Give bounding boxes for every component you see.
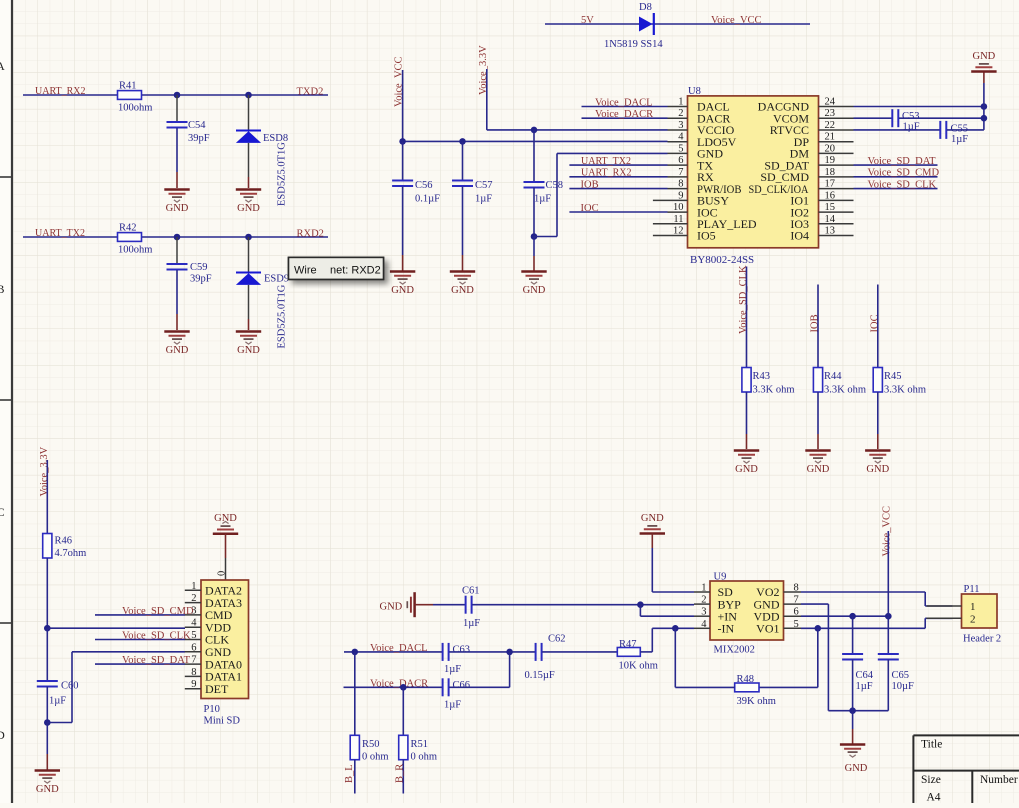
net label IOC pin10 bbox=[581, 203, 599, 214]
wire bbox=[877, 434, 879, 449]
svg-text:Voice_SD_DAT: Voice_SD_DAT bbox=[868, 156, 937, 167]
svg-text:Wire: Wire bbox=[294, 265, 317, 277]
wire bbox=[486, 69, 488, 130]
svg-text:15: 15 bbox=[825, 202, 836, 213]
svg-text:17: 17 bbox=[825, 179, 836, 190]
svg-text:1µF: 1µF bbox=[534, 194, 551, 205]
resistor R42 bbox=[118, 233, 142, 242]
net label Voice_SD_DAT bbox=[868, 156, 937, 167]
junction bbox=[885, 613, 892, 620]
svg-text:C58: C58 bbox=[546, 180, 564, 191]
svg-text:D: D bbox=[0, 728, 5, 742]
value 1uF C55 bbox=[951, 134, 968, 145]
U9 pin 6 bbox=[754, 607, 802, 624]
junction bbox=[44, 719, 51, 726]
value 0.15uF bbox=[525, 670, 555, 681]
wire bbox=[176, 270, 178, 314]
svg-text:4.7ohm: 4.7ohm bbox=[55, 548, 87, 559]
svg-text:GND: GND bbox=[641, 513, 664, 524]
zone letter A bbox=[0, 59, 5, 73]
wire bbox=[877, 285, 879, 368]
svg-text:1N5819 SS14: 1N5819 SS14 bbox=[604, 39, 663, 50]
value 10uF bbox=[892, 681, 915, 692]
svg-text:GND: GND bbox=[866, 464, 889, 475]
wire bbox=[176, 314, 178, 330]
svg-text:11: 11 bbox=[673, 214, 683, 225]
svg-text:R48: R48 bbox=[737, 674, 755, 685]
svg-text:A: A bbox=[0, 59, 5, 73]
wire bbox=[542, 651, 617, 653]
svg-text:10K ohm: 10K ohm bbox=[619, 661, 658, 672]
U8 pin 16 bbox=[790, 190, 853, 207]
P10 pin 7 bbox=[185, 655, 242, 672]
U9 pin 1 bbox=[694, 583, 733, 600]
value 39pF bbox=[188, 133, 210, 144]
svg-text:C62: C62 bbox=[548, 634, 566, 645]
svg-text:GND: GND bbox=[380, 602, 403, 613]
designator C60 bbox=[61, 681, 79, 692]
wire bbox=[746, 434, 748, 449]
designator C63 bbox=[453, 645, 471, 656]
capacitor C62 bbox=[536, 643, 542, 661]
U8 pin 14 bbox=[790, 214, 853, 231]
value 1uF C57 bbox=[475, 194, 492, 205]
svg-text:8: 8 bbox=[794, 583, 799, 594]
IC U8 BY8002-24SS bbox=[688, 86, 819, 266]
designator ESD9 bbox=[264, 274, 289, 285]
svg-text:12: 12 bbox=[673, 226, 684, 237]
net label IOB pin8 bbox=[581, 180, 599, 191]
net label UART_RX2 pin7 bbox=[581, 168, 632, 179]
resistor R47 bbox=[617, 648, 640, 657]
svg-text:Voice_SD_CMD: Voice_SD_CMD bbox=[122, 606, 194, 617]
value 0 ohm R50 bbox=[362, 752, 389, 763]
value 3.3K ohm R44 bbox=[824, 385, 866, 396]
junction bbox=[849, 707, 856, 714]
svg-text:IOB: IOB bbox=[581, 180, 599, 191]
capacitor C53 bbox=[892, 109, 898, 127]
wire bbox=[46, 628, 48, 681]
value 10K ohm bbox=[619, 661, 658, 672]
value 0 ohm R51 bbox=[411, 752, 438, 763]
U8 pin 11 bbox=[653, 214, 757, 231]
wire bbox=[569, 188, 667, 190]
svg-text:6: 6 bbox=[794, 607, 799, 618]
wire bbox=[569, 211, 667, 213]
wire bbox=[248, 319, 250, 330]
op-amp U9 MIX2002 bbox=[710, 572, 784, 656]
svg-text:GND: GND bbox=[523, 285, 546, 296]
svg-text:21: 21 bbox=[825, 132, 836, 143]
svg-text:GND: GND bbox=[166, 203, 189, 214]
svg-text:B: B bbox=[0, 282, 5, 296]
wire bbox=[95, 663, 185, 665]
svg-text:R41: R41 bbox=[119, 81, 137, 92]
wire bbox=[545, 23, 810, 25]
junction bbox=[981, 103, 988, 110]
power net Voice_3.3V vertical bbox=[478, 45, 489, 95]
wire bbox=[47, 722, 72, 724]
capacitor C61 bbox=[466, 596, 472, 614]
svg-text:13: 13 bbox=[825, 226, 836, 237]
svg-text:2: 2 bbox=[970, 613, 976, 625]
wire bbox=[674, 628, 676, 687]
junction node TXD2 b bbox=[245, 92, 252, 99]
U9 pin 8 bbox=[756, 583, 801, 600]
wire bbox=[652, 591, 694, 593]
wire bbox=[533, 130, 535, 182]
capacitor C66 bbox=[443, 678, 449, 696]
wire bbox=[402, 70, 404, 141]
net label RXD2 bbox=[297, 229, 324, 240]
tooltip Wire net: RXD2 bbox=[289, 257, 384, 279]
svg-text:7: 7 bbox=[794, 595, 799, 606]
svg-text:GND: GND bbox=[845, 763, 868, 774]
designator R41 bbox=[119, 81, 137, 92]
svg-text:R47: R47 bbox=[619, 639, 637, 650]
svg-text:ESD5Z5.0T1G: ESD5Z5.0T1G bbox=[277, 284, 288, 348]
wire bbox=[887, 531, 889, 616]
svg-text:GND: GND bbox=[166, 345, 189, 356]
wire bbox=[344, 686, 443, 688]
wire bbox=[402, 141, 404, 180]
ground bbox=[805, 451, 830, 476]
value 1N5819 SS14 bbox=[604, 39, 663, 50]
power net Voice_VCC vertical bbox=[394, 56, 405, 107]
wire bbox=[248, 285, 250, 319]
U8 pin 12 bbox=[653, 226, 716, 243]
designator R47 bbox=[619, 639, 637, 650]
net label IOC vertical bbox=[869, 314, 880, 332]
value ESD5Z5.0T1G bbox=[277, 142, 288, 206]
ground bbox=[640, 513, 665, 534]
value 1uF C58 bbox=[534, 194, 551, 205]
capacitor C63 bbox=[443, 643, 449, 661]
resistor R48 bbox=[735, 683, 759, 692]
wire bbox=[248, 95, 250, 131]
capacitor C58 bbox=[524, 182, 545, 188]
svg-text:1µF: 1µF bbox=[444, 664, 461, 675]
connector P10 Mini SD bbox=[201, 580, 249, 727]
svg-text:B_L: B_L bbox=[344, 764, 355, 783]
svg-text:C60: C60 bbox=[61, 681, 79, 692]
wire bbox=[801, 627, 925, 629]
U8 pin 10 bbox=[668, 202, 718, 219]
wire bbox=[640, 651, 652, 653]
zone letter D bbox=[0, 728, 5, 742]
svg-text:Mini SD: Mini SD bbox=[204, 716, 241, 727]
designator C58 bbox=[546, 180, 564, 191]
svg-text:GND: GND bbox=[237, 203, 260, 214]
svg-text:Voice_DACR: Voice_DACR bbox=[595, 109, 653, 120]
svg-text:C64: C64 bbox=[856, 670, 874, 681]
designator R48 bbox=[737, 674, 755, 685]
ground power port at C61 bbox=[380, 592, 434, 617]
U8 pin 19 bbox=[764, 155, 853, 172]
svg-text:RXD2: RXD2 bbox=[297, 229, 324, 240]
wire bbox=[472, 604, 694, 606]
wire bbox=[854, 176, 938, 178]
designator C53 bbox=[902, 111, 920, 122]
U8 pin 18 bbox=[760, 167, 853, 184]
svg-text:R45: R45 bbox=[884, 371, 902, 382]
svg-text:4: 4 bbox=[678, 132, 684, 143]
power net Voice_3.3V lower bbox=[39, 446, 50, 496]
svg-text:Voice_3.3V: Voice_3.3V bbox=[39, 446, 50, 496]
net label Voice_SD_DAT p10 bbox=[122, 655, 191, 666]
net label 5V bbox=[581, 15, 594, 26]
designator R51 bbox=[411, 739, 429, 750]
wire bbox=[924, 618, 926, 628]
svg-text:10µF: 10µF bbox=[892, 681, 915, 692]
svg-text:1µF: 1µF bbox=[903, 122, 920, 133]
ground bbox=[236, 332, 261, 357]
wire bbox=[533, 188, 535, 237]
P10 pin 6 bbox=[185, 642, 232, 659]
wire bbox=[95, 639, 185, 641]
wire bbox=[509, 652, 511, 687]
wire bbox=[23, 94, 118, 96]
svg-text:19: 19 bbox=[825, 155, 836, 166]
designator R44 bbox=[824, 371, 842, 382]
svg-text:1µF: 1µF bbox=[856, 681, 873, 692]
wire bbox=[449, 686, 509, 688]
svg-text:20: 20 bbox=[825, 143, 836, 154]
U8 pin 4 bbox=[668, 132, 737, 149]
net label B_L bbox=[344, 764, 355, 783]
wire bbox=[924, 592, 926, 606]
svg-text:GND: GND bbox=[237, 345, 260, 356]
svg-text:Voice_DACL: Voice_DACL bbox=[370, 643, 428, 654]
value 100ohm bbox=[118, 103, 152, 114]
wire bbox=[433, 604, 466, 606]
net label Voice_DACR audio bbox=[370, 678, 428, 689]
power net Voice_VCC lower bbox=[881, 506, 892, 557]
svg-text:2: 2 bbox=[701, 595, 706, 606]
designator C56 bbox=[415, 180, 433, 191]
wire bbox=[746, 392, 748, 434]
wire bbox=[557, 152, 668, 154]
svg-text:8: 8 bbox=[191, 667, 196, 678]
wire bbox=[462, 141, 464, 180]
wire bbox=[887, 660, 889, 711]
ground bbox=[971, 51, 996, 72]
net label Voice_SD_CLK vertical bbox=[738, 265, 749, 334]
svg-text:1µF: 1µF bbox=[49, 696, 66, 707]
wire bbox=[675, 686, 734, 688]
svg-text:4: 4 bbox=[191, 618, 197, 629]
wire bbox=[854, 129, 941, 131]
net label Voice_VCC bbox=[711, 15, 762, 26]
svg-text:UART_TX2: UART_TX2 bbox=[581, 156, 631, 167]
ground bbox=[390, 272, 415, 297]
svg-text:39pF: 39pF bbox=[188, 133, 210, 144]
svg-text:U9: U9 bbox=[714, 572, 727, 583]
wire bbox=[487, 129, 668, 131]
wire bbox=[46, 558, 48, 628]
svg-text:3: 3 bbox=[191, 605, 196, 616]
ground bbox=[865, 451, 890, 476]
svg-text:5V: 5V bbox=[581, 15, 594, 26]
wire bbox=[46, 460, 48, 534]
P10 pin 2 bbox=[185, 593, 242, 610]
svg-text:16: 16 bbox=[825, 190, 836, 201]
svg-text:Header 2: Header 2 bbox=[963, 634, 1001, 645]
svg-text:C57: C57 bbox=[475, 180, 493, 191]
value 1uF C61 bbox=[463, 618, 480, 629]
wire bbox=[569, 176, 667, 178]
svg-text:IOC: IOC bbox=[869, 314, 880, 332]
designator C62 bbox=[548, 634, 566, 645]
svg-text:A4: A4 bbox=[927, 792, 941, 804]
svg-text:GND: GND bbox=[735, 464, 758, 475]
wire bbox=[582, 117, 668, 119]
svg-text:2: 2 bbox=[678, 108, 683, 119]
value 1uF C64 bbox=[856, 681, 873, 692]
svg-text:4: 4 bbox=[701, 619, 707, 630]
wire bbox=[534, 236, 557, 238]
wire bbox=[533, 237, 535, 257]
designator D8 bbox=[639, 2, 652, 13]
svg-text:0.1µF: 0.1µF bbox=[415, 194, 440, 205]
title block bbox=[913, 735, 1019, 803]
designator C65 bbox=[892, 670, 910, 681]
svg-text:6: 6 bbox=[678, 155, 683, 166]
capacitor C65 bbox=[878, 654, 899, 660]
junction bbox=[815, 625, 822, 632]
svg-text:ESD9: ESD9 bbox=[264, 274, 289, 285]
junction bbox=[531, 127, 538, 134]
U8 pin 15 bbox=[790, 202, 853, 219]
wire bbox=[852, 660, 854, 711]
net label Voice_SD_CLK p10 bbox=[122, 631, 191, 642]
U8 pin 7 bbox=[668, 167, 715, 184]
P10 pin 5 bbox=[185, 630, 230, 647]
wire bbox=[225, 534, 227, 558]
designator R42 bbox=[119, 223, 137, 234]
svg-text:1: 1 bbox=[701, 583, 706, 594]
svg-text:R42: R42 bbox=[119, 223, 137, 234]
designator C66 bbox=[453, 680, 471, 691]
svg-text:IO4: IO4 bbox=[790, 229, 809, 243]
svg-text:Voice_SD_CLK: Voice_SD_CLK bbox=[122, 631, 191, 642]
U8 pin 2 bbox=[668, 108, 731, 125]
svg-text:GND: GND bbox=[214, 513, 237, 524]
U8 pin 3 bbox=[668, 120, 735, 137]
designator ESD8 bbox=[263, 133, 288, 144]
zone letter C bbox=[0, 505, 5, 519]
svg-text:GND: GND bbox=[451, 285, 474, 296]
net label UART_TX2 bbox=[35, 228, 85, 239]
wire bbox=[640, 615, 694, 617]
capacitor C60 bbox=[37, 681, 58, 687]
junction node TXD2 bbox=[174, 92, 181, 99]
P10 pin 8 bbox=[185, 667, 242, 684]
junction bbox=[506, 649, 513, 656]
resistor R43 bbox=[742, 368, 751, 393]
svg-text:C66: C66 bbox=[453, 680, 471, 691]
wire bbox=[639, 605, 641, 617]
wire bbox=[402, 255, 404, 271]
svg-text:GND: GND bbox=[807, 464, 830, 475]
wire bbox=[569, 164, 667, 166]
ground bbox=[213, 513, 238, 534]
designator R50 bbox=[362, 739, 380, 750]
wire bbox=[556, 153, 558, 236]
ground bbox=[840, 745, 868, 775]
svg-text:5: 5 bbox=[678, 143, 683, 154]
junction bbox=[849, 613, 856, 620]
svg-text:7: 7 bbox=[191, 655, 196, 666]
svg-text:Voice_VCC: Voice_VCC bbox=[711, 15, 762, 26]
designator C59 bbox=[190, 262, 208, 273]
ground bbox=[521, 272, 546, 297]
designator R45 bbox=[884, 371, 902, 382]
wire bbox=[582, 106, 668, 108]
wire bbox=[449, 651, 535, 653]
wire bbox=[651, 628, 653, 652]
P10 pin 1 bbox=[185, 581, 242, 598]
wire bbox=[651, 548, 653, 592]
svg-text:7: 7 bbox=[678, 167, 683, 178]
designator R43 bbox=[753, 371, 771, 382]
svg-text:14: 14 bbox=[825, 214, 836, 225]
svg-text:Voice_DACL: Voice_DACL bbox=[595, 98, 653, 109]
svg-text:R51: R51 bbox=[411, 739, 429, 750]
svg-text:2: 2 bbox=[191, 593, 196, 604]
svg-text:3: 3 bbox=[701, 607, 706, 618]
U8 pin 17 bbox=[749, 179, 854, 196]
resistor R46 bbox=[43, 534, 52, 559]
svg-text:IOC: IOC bbox=[581, 203, 599, 214]
junction node RXD2 b bbox=[245, 234, 252, 241]
svg-text:ESD5Z5.0T1G: ESD5Z5.0T1G bbox=[277, 142, 288, 206]
svg-text:6: 6 bbox=[191, 642, 196, 653]
wire bbox=[46, 723, 48, 755]
svg-text:R46: R46 bbox=[55, 536, 73, 547]
svg-text:24: 24 bbox=[825, 97, 836, 108]
svg-text:VO1: VO1 bbox=[756, 622, 779, 636]
wire bbox=[47, 627, 185, 629]
wire bbox=[925, 617, 952, 619]
designator C61 bbox=[462, 586, 480, 597]
svg-text:B_R: B_R bbox=[395, 764, 406, 783]
svg-text:39pF: 39pF bbox=[190, 274, 212, 285]
designator C54 bbox=[188, 120, 206, 131]
svg-text:C54: C54 bbox=[188, 120, 206, 131]
wire bbox=[887, 616, 889, 654]
value 100ohm R42 bbox=[118, 245, 152, 256]
value ESD5Z5.0T1G b bbox=[277, 284, 288, 348]
svg-text:C59: C59 bbox=[190, 262, 208, 273]
U8 pin 8 bbox=[668, 179, 742, 196]
svg-text:C53: C53 bbox=[902, 111, 920, 122]
designator R46 bbox=[55, 536, 73, 547]
P10 pin 3 bbox=[185, 605, 233, 622]
wire bbox=[354, 652, 356, 735]
U8 pin 24 bbox=[758, 97, 854, 114]
wire bbox=[947, 129, 984, 131]
wire bbox=[248, 237, 250, 273]
wire bbox=[71, 652, 73, 723]
svg-text:Voice_SD_CLK: Voice_SD_CLK bbox=[868, 180, 937, 191]
svg-text:R50: R50 bbox=[362, 739, 380, 750]
diode D8 bbox=[639, 13, 654, 35]
wire bbox=[142, 236, 329, 238]
svg-text:C: C bbox=[0, 505, 5, 519]
net label Voice_SD_CMD p10 bbox=[122, 606, 194, 617]
junction bbox=[352, 649, 359, 656]
